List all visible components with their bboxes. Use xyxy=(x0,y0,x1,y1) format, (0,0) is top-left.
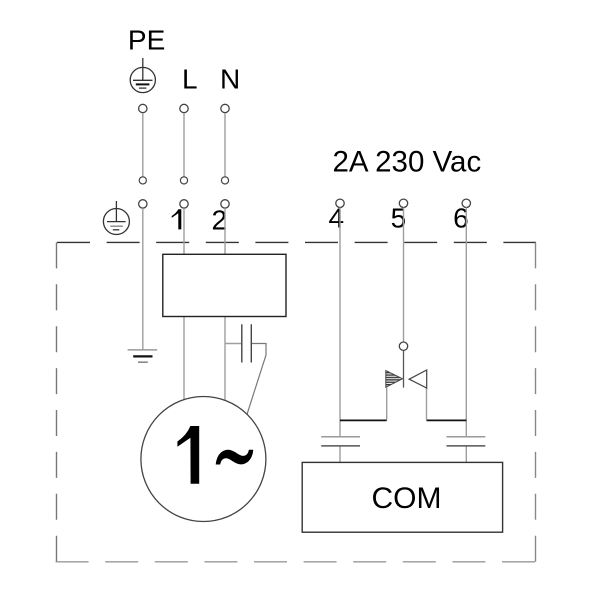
svg-text:L: L xyxy=(182,64,198,95)
svg-text:N: N xyxy=(220,64,240,95)
svg-text:2A 230 Vac: 2A 230 Vac xyxy=(333,145,482,178)
svg-text:4: 4 xyxy=(329,202,345,233)
svg-text:COM: COM xyxy=(372,482,442,515)
svg-text:PE: PE xyxy=(128,25,165,56)
